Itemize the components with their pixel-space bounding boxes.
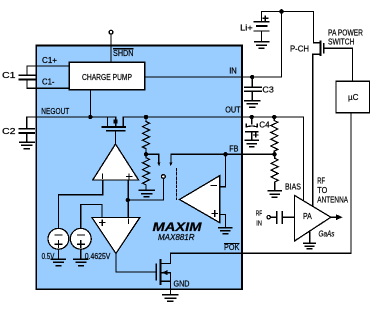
svg-text:C1-: C1-: [42, 77, 55, 87]
svg-text:MAX881R: MAX881R: [158, 232, 195, 242]
svg-text:PA: PA: [303, 211, 312, 221]
svg-text:RF: RF: [317, 176, 325, 186]
svg-text:SWITCH: SWITCH: [328, 37, 355, 47]
svg-text:0.4625V: 0.4625V: [85, 252, 111, 261]
svg-text:TO: TO: [317, 185, 327, 195]
svg-text:SHDN: SHDN: [113, 48, 134, 58]
svg-text:C1: C1: [2, 70, 16, 80]
svg-text:FB: FB: [229, 144, 239, 154]
svg-text:IN: IN: [256, 220, 262, 227]
svg-text:NEGOUT: NEGOUT: [41, 106, 69, 116]
svg-text:µC: µC: [348, 92, 359, 102]
svg-text:CHARGE PUMP: CHARGE PUMP: [82, 72, 132, 82]
svg-text:0.5V: 0.5V: [42, 252, 55, 261]
svg-text:GaAs: GaAs: [319, 228, 335, 238]
svg-text:C2: C2: [2, 126, 16, 136]
svg-text:IN: IN: [229, 66, 237, 76]
svg-text:ANTENNA: ANTENNA: [317, 195, 348, 205]
svg-text:C4: C4: [259, 119, 270, 129]
svg-text:C3: C3: [262, 84, 274, 94]
svg-text:Li+: Li+: [240, 23, 253, 33]
svg-text:P-CH: P-CH: [290, 44, 309, 54]
svg-text:C1+: C1+: [42, 55, 57, 65]
svg-text:OUT: OUT: [225, 105, 240, 115]
svg-text:GND: GND: [174, 279, 190, 289]
svg-text:RF: RF: [256, 211, 262, 218]
svg-text:BIAS: BIAS: [285, 182, 301, 192]
